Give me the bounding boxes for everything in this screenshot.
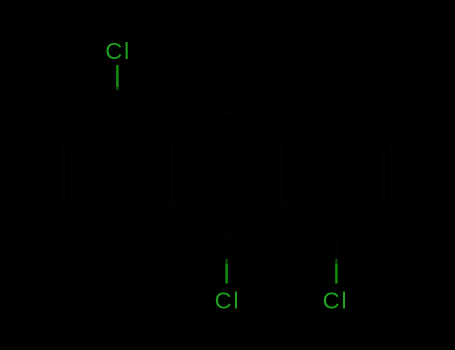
ring B inner double-bond lines xyxy=(179,123,275,226)
ring C (right benzene ring, black-on-black) xyxy=(282,112,391,236)
bond C1-Cl upper (fading tip of green stub) xyxy=(116,87,118,90)
bond C1-Cl upper (green half stub) xyxy=(116,65,118,87)
bond C10-Cl bottom-centre (fading tip of green stub) xyxy=(225,259,227,264)
svg-text:Cl: Cl xyxy=(105,38,131,64)
ring A (left benzene ring of anthracene, black-on-black) xyxy=(64,112,173,236)
bond C10-Cl bottom-centre (black half toward ring) xyxy=(226,236,228,260)
bond C4-Cl bottom-right (fading tip of green stub) xyxy=(335,259,337,264)
bond C4-Cl bottom-right (black half toward ring) xyxy=(335,236,337,260)
svg-text:Cl: Cl xyxy=(323,287,349,313)
ring B (middle benzene ring, black-on-black) xyxy=(173,112,282,236)
bond C10-Cl bottom-centre (green half stub) xyxy=(225,264,227,284)
bond C1-Cl upper (black half toward ring) xyxy=(116,88,118,112)
svg-text:Cl: Cl xyxy=(215,287,241,313)
ring A inner double-bond lines xyxy=(71,123,161,200)
bond C4-Cl bottom-right (green half stub) xyxy=(335,264,337,284)
ring C inner double-bond lines xyxy=(288,123,384,200)
